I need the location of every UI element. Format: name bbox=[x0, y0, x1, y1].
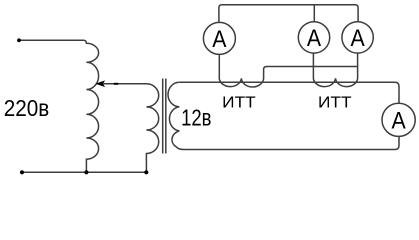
svg-text:12в: 12в bbox=[181, 105, 211, 131]
svg-text:ИТТ: ИТТ bbox=[222, 94, 256, 111]
svg-text:A: A bbox=[351, 25, 366, 52]
svg-text:A: A bbox=[392, 108, 407, 135]
svg-text:220в: 220в bbox=[4, 95, 50, 121]
svg-text:A: A bbox=[307, 25, 322, 52]
svg-text:ИТТ: ИТТ bbox=[318, 94, 352, 111]
svg-text:A: A bbox=[212, 26, 227, 53]
